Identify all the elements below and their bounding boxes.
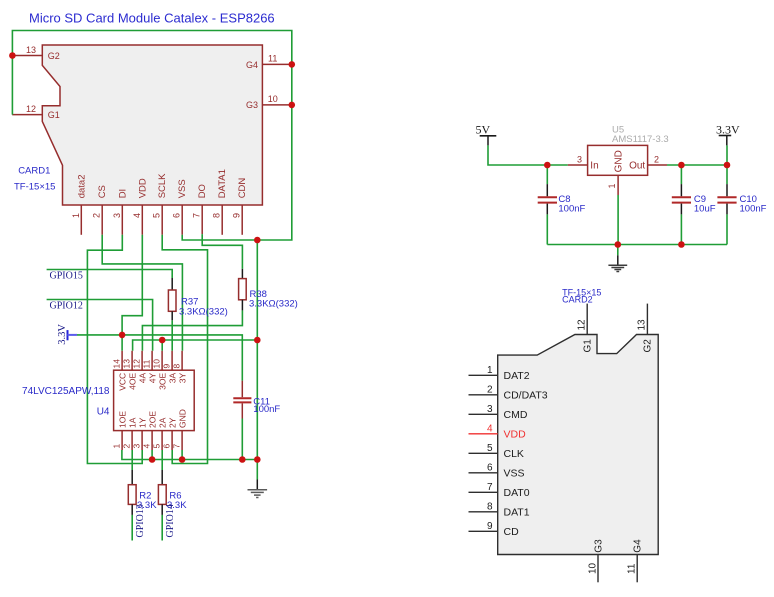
wire ground rail right	[547, 244, 727, 246]
svg-text:12: 12	[132, 359, 142, 369]
U4 bottom pin names	[117, 409, 187, 428]
svg-text:1: 1	[71, 213, 81, 218]
SD card CARD2 body	[498, 335, 659, 555]
svg-text:GPIO12: GPIO12	[50, 301, 83, 312]
svg-text:3: 3	[577, 154, 582, 164]
svg-text:6: 6	[487, 463, 493, 474]
wire U4 4OE 3OE to ground	[133, 340, 258, 351]
svg-text:100nF: 100nF	[253, 404, 280, 415]
svg-text:G4: G4	[246, 60, 258, 70]
svg-text:3: 3	[112, 213, 122, 218]
svg-text:5: 5	[487, 443, 493, 454]
svg-text:10uF: 10uF	[694, 204, 716, 215]
svg-text:100nF: 100nF	[558, 204, 585, 215]
wire 5V to regulator In	[488, 145, 568, 165]
svg-text:7: 7	[487, 482, 493, 493]
svg-text:4OE: 4OE	[127, 372, 137, 389]
svg-text:13: 13	[122, 359, 132, 369]
U4 bottom pin stubs 1-7	[122, 431, 182, 450]
ground symbol left	[248, 480, 268, 498]
capacitor C8	[538, 165, 586, 245]
svg-text:2: 2	[487, 385, 493, 396]
svg-text:5V: 5V	[476, 123, 491, 137]
svg-text:G2: G2	[48, 51, 60, 61]
svg-text:3.3V: 3.3V	[716, 123, 740, 137]
svg-text:G3: G3	[246, 100, 258, 110]
svg-text:G4: G4	[633, 539, 644, 553]
CARD2 pin 1 DAT2	[469, 365, 530, 382]
svg-text:1Y: 1Y	[137, 417, 147, 428]
svg-text:CMD: CMD	[504, 409, 528, 421]
svg-text:GPIO14: GPIO14	[165, 504, 176, 537]
svg-text:CD/DAT3: CD/DAT3	[504, 389, 548, 401]
svg-text:3.3V: 3.3V	[57, 324, 68, 345]
CARD2 reference labels	[562, 287, 601, 304]
resistor R37	[168, 278, 227, 320]
svg-text:1: 1	[112, 444, 122, 449]
svg-text:Out: Out	[629, 160, 645, 171]
svg-text:CDN: CDN	[237, 178, 248, 199]
svg-text:4A: 4A	[137, 372, 147, 383]
wire R6 to GPIO14	[161, 515, 163, 541]
junction dots left circuit	[9, 52, 295, 463]
svg-text:In: In	[590, 160, 598, 171]
resistor R6	[158, 470, 187, 515]
svg-text:3.3KΩ(332): 3.3KΩ(332)	[179, 307, 228, 318]
wire 3.3V rail to C11	[77, 335, 242, 381]
svg-text:CD: CD	[504, 526, 520, 538]
wire C11 bottom to ground rail	[241, 419, 243, 460]
svg-text:8: 8	[172, 364, 182, 369]
wire U4 2A to R6	[161, 450, 163, 470]
svg-text:2A: 2A	[157, 417, 167, 428]
svg-text:TF-15×15: TF-15×15	[14, 182, 55, 193]
svg-text:2: 2	[122, 444, 132, 449]
CARD1 reference labels	[14, 166, 55, 193]
svg-text:8: 8	[212, 213, 222, 218]
svg-text:CLK: CLK	[504, 448, 524, 460]
U4 top pin numbers	[112, 359, 182, 369]
svg-text:74LVC125APW,118: 74LVC125APW,118	[22, 386, 110, 397]
CARD2 pin 6 VSS	[469, 463, 525, 480]
3.3V power symbol	[57, 324, 77, 345]
wire regulator Out to 3.3V	[667, 164, 727, 166]
svg-text:2: 2	[92, 213, 102, 218]
wire regulator GND down	[617, 195, 619, 245]
wire CS to U4 3Y	[102, 235, 182, 351]
svg-text:100nF: 100nF	[740, 204, 767, 215]
svg-text:10: 10	[587, 562, 598, 574]
IC U4 74LVC125 body	[114, 370, 195, 430]
svg-text:12: 12	[26, 104, 36, 114]
svg-text:12: 12	[577, 319, 588, 331]
svg-text:1A: 1A	[127, 417, 137, 428]
svg-text:3: 3	[132, 444, 142, 449]
svg-text:14: 14	[112, 359, 122, 369]
CARD1 pin 11 G4	[246, 54, 292, 70]
CARD1 pin names	[76, 169, 248, 198]
5V power symbol	[476, 123, 497, 146]
svg-text:9: 9	[232, 213, 242, 218]
svg-text:9: 9	[487, 521, 493, 532]
wire ground loop G1 G2 to G3 G4 and VSS	[12, 31, 291, 241]
wire U4 3OE stub	[161, 340, 163, 351]
resistor R38	[239, 269, 298, 311]
svg-text:DO: DO	[197, 184, 208, 198]
CARD2 pin 7 DAT0	[469, 482, 530, 499]
wire U4 pin7 GND to ground rail	[181, 450, 183, 460]
svg-text:9: 9	[162, 364, 172, 369]
svg-text:Micro SD Card Module Catalex -: Micro SD Card Module Catalex - ESP8266	[29, 11, 275, 26]
svg-text:11: 11	[268, 54, 277, 64]
SD card module CARD1 body	[42, 45, 262, 205]
capacitor C10	[717, 165, 766, 245]
svg-text:6: 6	[172, 213, 182, 218]
junction dots right circuit	[544, 162, 730, 248]
svg-text:VDD: VDD	[137, 178, 148, 198]
svg-text:DAT0: DAT0	[504, 487, 530, 499]
svg-text:3A: 3A	[167, 372, 177, 383]
wire SCLK to U4 2Y	[162, 235, 207, 464]
svg-text:3Y: 3Y	[177, 372, 187, 383]
resistor R2	[128, 470, 157, 515]
U5 pin 1 GND	[607, 150, 625, 195]
CARD2 pin 2 CD/DAT3	[469, 385, 548, 402]
wire GPIO15 net to R37	[47, 270, 173, 279]
CARD2 pin 9 CD	[469, 521, 520, 538]
svg-text:DAT1: DAT1	[504, 506, 530, 518]
capacitor C11	[233, 381, 280, 419]
svg-text:5: 5	[152, 444, 162, 449]
CARD2 pin 10 G3	[587, 539, 604, 582]
svg-text:AMS1117-3.3: AMS1117-3.3	[612, 134, 669, 145]
wire ground symbol stem	[256, 460, 258, 480]
svg-text:2: 2	[654, 154, 659, 164]
svg-text:5: 5	[152, 213, 162, 218]
CARD1 pin 13 G2	[13, 45, 60, 61]
CARD2 pin 5 CLK	[469, 443, 524, 460]
svg-text:VDD: VDD	[504, 428, 527, 440]
CARD2 pin 4 VDD	[469, 424, 527, 441]
CARD2 pin 13 G2	[637, 304, 654, 353]
svg-text:DATA1: DATA1	[217, 169, 228, 198]
U5 reference labels	[612, 125, 669, 145]
CARD2 pin 12 G1	[577, 304, 594, 353]
svg-text:3: 3	[487, 404, 493, 415]
svg-text:4: 4	[132, 213, 142, 218]
3.3V power symbol right	[716, 123, 740, 166]
svg-text:CS: CS	[97, 185, 108, 198]
svg-text:GND: GND	[614, 150, 625, 172]
svg-text:13: 13	[26, 45, 36, 55]
svg-text:GPIO15: GPIO15	[50, 271, 83, 282]
svg-text:8: 8	[487, 502, 493, 513]
ground symbol right	[608, 245, 627, 272]
svg-text:G2: G2	[643, 339, 654, 353]
svg-text:3.3KΩ(332): 3.3KΩ(332)	[249, 298, 298, 309]
CARD2 pin 3 CMD	[469, 404, 528, 421]
CARD1 bottom pin numbers 1-9	[71, 213, 242, 218]
U4 reference labels	[22, 386, 110, 418]
wire U4 pin4 to ground rail	[151, 450, 153, 460]
svg-text:2OE: 2OE	[147, 411, 157, 428]
wire ground vertical to bottom	[256, 240, 258, 460]
svg-text:G1: G1	[48, 110, 60, 120]
svg-text:2Y: 2Y	[167, 417, 177, 428]
svg-text:SCLK: SCLK	[157, 173, 168, 198]
svg-text:VCC: VCC	[117, 373, 127, 391]
svg-text:3OE: 3OE	[157, 372, 167, 389]
svg-text:data2: data2	[76, 175, 87, 199]
CARD1 bottom pins 1-9 stubs	[81, 205, 242, 235]
svg-text:GND: GND	[177, 409, 187, 428]
CARD1 pin 12 G1	[12, 104, 60, 120]
svg-text:G3: G3	[593, 539, 604, 553]
capacitor C9	[672, 165, 716, 245]
wire R2 to GPIO13	[131, 515, 133, 541]
svg-text:10: 10	[152, 359, 162, 369]
svg-text:6: 6	[162, 444, 172, 449]
svg-text:11: 11	[142, 359, 152, 368]
svg-text:7: 7	[172, 444, 182, 449]
svg-text:11: 11	[627, 563, 638, 574]
svg-text:DAT2: DAT2	[504, 370, 530, 382]
svg-text:4: 4	[487, 424, 493, 435]
svg-text:10: 10	[268, 94, 278, 104]
wire ground bottom rail	[122, 450, 257, 460]
wire R37 to U4 3A	[171, 320, 173, 351]
svg-text:1: 1	[607, 183, 617, 188]
wire VDD to 3.3V and U4 VCC	[122, 235, 142, 351]
U5 pin 2 Out	[629, 154, 667, 171]
U4 top pin stubs 14-8	[122, 351, 182, 370]
svg-text:VSS: VSS	[177, 179, 188, 198]
svg-text:4: 4	[142, 444, 152, 449]
U5 pin 3 In	[568, 154, 599, 171]
U4 top pin names	[117, 372, 187, 390]
svg-text:DI: DI	[117, 189, 128, 199]
svg-text:4Y: 4Y	[147, 372, 157, 383]
svg-text:1OE: 1OE	[117, 411, 127, 428]
wire R38 to U4 4A	[142, 310, 242, 350]
svg-text:U4: U4	[97, 407, 110, 418]
U4 bottom pin numbers	[112, 444, 182, 449]
CARD1 pin 10 G3	[246, 94, 292, 110]
wire GPIO12 net to U4 4Y	[47, 300, 153, 351]
wire U4 1A to R2	[131, 450, 133, 470]
wire DI to U4 1Y	[87, 235, 142, 464]
regulator U5 body	[588, 145, 648, 175]
svg-text:GPIO13: GPIO13	[135, 504, 146, 537]
svg-text:7: 7	[192, 213, 202, 218]
svg-text:VSS: VSS	[504, 467, 525, 479]
CARD2 pin 11 G4	[627, 539, 644, 582]
svg-text:CARD2: CARD2	[562, 294, 593, 304]
svg-text:G1: G1	[583, 339, 594, 353]
svg-text:13: 13	[637, 319, 648, 331]
svg-text:CARD1: CARD1	[18, 166, 50, 177]
CARD2 pin 8 DAT1	[469, 502, 530, 519]
svg-text:1: 1	[487, 365, 493, 376]
wire DO to R38	[202, 234, 242, 269]
